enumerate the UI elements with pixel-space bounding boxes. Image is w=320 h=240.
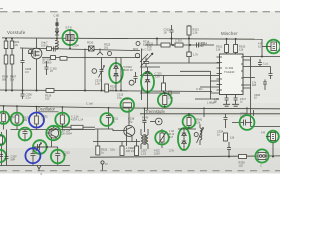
svg-text:C304: C304 [73, 44, 80, 48]
capacitor right of IC lower [263, 80, 267, 91]
junction dot G11 stem [188, 113, 190, 115]
resistor horizontal osz-out [62, 124, 71, 127]
wire trennstufe mid y141.5 [93, 141, 140, 143]
junction dot ground B5 [101, 90, 103, 92]
junction dot rail 2 [11, 38, 13, 40]
junction dot ground B6 [115, 90, 117, 92]
wire x121 vertical [120, 58, 122, 91]
svg-text:8,2k: 8,2k [143, 42, 149, 46]
svg-text:2,2n: 2,2n [26, 95, 32, 99]
resistor R307 [10, 55, 14, 64]
svg-text:DR 900: DR 900 [43, 60, 52, 64]
svg-text:Mischer: Mischer [221, 31, 238, 36]
varactor diode pair [145, 67, 149, 110]
underline Oszillator [38, 111, 59, 113]
coil L302 [55, 39, 58, 51]
wire connector down [272, 143, 274, 157]
junction dot x157 [156, 38, 158, 40]
svg-text:C: C [260, 164, 262, 168]
svg-text:1,7k: 1,7k [193, 53, 199, 57]
IC pin marks inner [220, 57, 244, 91]
test point circle 2 [108, 52, 112, 56]
resistor R325 [105, 84, 109, 92]
svg-text:100 V: 100 V [41, 43, 48, 47]
capacitor on y45 [197, 43, 199, 48]
junction dot rail 6 [189, 44, 191, 46]
svg-text:Trennstufe: Trennstufe [145, 109, 166, 114]
capacitor above rail E [227, 142, 231, 157]
svg-text:12k: 12k [216, 47, 221, 51]
junction dot divider x144.5 [144, 108, 146, 110]
svg-text:1,15: 1,15 [141, 151, 147, 155]
green circle marker resistor R318 [158, 93, 172, 107]
green ellipse marker varactors [141, 72, 154, 92]
svg-text:1k8: 1k8 [252, 84, 257, 87]
svg-text:10µ: 10µ [128, 119, 133, 123]
diode pair trenn [182, 129, 186, 150]
capacitor C312 [170, 25, 174, 45]
resistor R320 above IC [226, 39, 228, 45]
IC U301 TCA440 [220, 54, 244, 95]
green circle marker C326 [240, 115, 255, 130]
resistor R303 [11, 39, 13, 42]
ground below IC cap2 [232, 104, 239, 106]
svg-text:BCD 10: BCD 10 [124, 68, 134, 72]
green circle marker osz R2 [11, 113, 24, 126]
junction rail E 2 [272, 156, 274, 158]
capacitor left edge [0, 155, 3, 157]
junction dot rail 5 [172, 44, 174, 46]
wire oszillator mid rail [11, 129, 96, 131]
wire x85 vertical [84, 49, 86, 91]
junction dot 262 [261, 56, 263, 58]
capacitor below IC 2 [234, 95, 238, 105]
svg-text:120: 120 [239, 163, 244, 167]
IC pin stubs left [217, 57, 220, 90]
svg-text:3,1k: 3,1k [110, 148, 116, 152]
capacitor C green circled mid [106, 108, 111, 129]
resistor column trenn 1 [97, 130, 99, 147]
tick marks on divider [204, 107, 254, 117]
svg-text:510: 510 [45, 96, 50, 100]
wire mischer y45 [145, 44, 214, 46]
junction dot rail C312 [171, 38, 173, 40]
resistor R321 above IC [235, 39, 237, 45]
capacitor C326 green [232, 120, 252, 126]
wire y147 oszillator [33, 146, 58, 148]
green circle marker horizontal resistor top [121, 98, 135, 112]
tuning gang variable capacitor [140, 53, 153, 67]
resistor 12k trenn [224, 133, 228, 141]
junction dot rail 7 [226, 38, 228, 40]
wire IC pin stubs left lower [140, 76, 219, 100]
test point circle [29, 50, 33, 54]
svg-text:C 311: C 311 [196, 87, 203, 91]
junction dot divider x3.5 [3, 105, 5, 107]
test point circle coil [194, 133, 198, 137]
wire divider rail lower [140, 113, 280, 115]
capacitor right of IC upper [258, 59, 262, 67]
resistor R319 [46, 89, 54, 93]
svg-text:5 P 8: 5 P 8 [66, 26, 73, 30]
resistor column trenn 2 [121, 142, 123, 147]
svg-text:R310: R310 [87, 41, 94, 45]
resistor box x60 [60, 57, 67, 61]
capacitor C307 [5, 130, 9, 166]
green circle marker ferrite [63, 30, 78, 45]
resistor in circle [188, 114, 190, 118]
resistor R313 [188, 25, 190, 26]
svg-text:C 1n8: C 1n8 [86, 103, 93, 106]
oszillator resistor column 3 [36, 107, 38, 117]
junction dot rail R313 [188, 38, 190, 40]
svg-text:517: 517 [110, 87, 115, 91]
jack connector [258, 153, 266, 160]
wire supply rail top [2, 38, 262, 39]
svg-text:C µ1: C µ1 [263, 63, 269, 66]
svg-text:56k: 56k [2, 77, 7, 81]
green circle marker cap mid [100, 113, 113, 126]
coil trimmer L [197, 124, 204, 145]
green ellipse marker diodes [109, 63, 123, 83]
svg-text:Vorstufe: Vorstufe [7, 30, 26, 35]
test point circle 3 [92, 69, 97, 74]
svg-text:Oszillator: Oszillator [38, 107, 56, 112]
transistor Q301 MOSFET BF900 [31, 48, 42, 59]
resistor R310 box [89, 46, 95, 51]
IC pin stubs right [243, 60, 271, 88]
green circle marker left edge 2 [0, 150, 6, 162]
svg-text:4 R: 4 R [261, 131, 265, 135]
svg-text:1,5n: 1,5n [95, 81, 101, 85]
svg-text:561: 561 [142, 118, 147, 122]
svg-text:R327: R327 [124, 97, 131, 101]
test point circle 4 [129, 80, 134, 85]
wire mid horizontal left [20, 48, 140, 51]
vertical stub x157 [156, 39, 158, 46]
green circle marker connector right [267, 131, 279, 143]
capacitor C305 [21, 91, 25, 100]
diode stack varactor top [55, 18, 59, 39]
junction dot ground 2 [120, 90, 122, 92]
vertical corner x270.5 [269, 67, 273, 80]
wire y129 trenn [178, 128, 196, 130]
junction dot divider x17 [16, 105, 18, 107]
junction dot above R318 [164, 92, 166, 94]
svg-text:M03: M03 [133, 47, 139, 51]
oszillator resistor column 4 [61, 107, 63, 115]
test point circle x137.5 [135, 53, 139, 57]
wire y67 left of varactor [140, 66, 160, 68]
resistor R317 [163, 76, 165, 84]
wire divider rail upper [0, 106, 280, 109]
capacitor below IC 1 [225, 95, 229, 105]
resistor R312 horizontal [161, 43, 170, 47]
wire right vertical from IC [243, 57, 280, 127]
wire to TP [150, 121, 155, 123]
ferrite bead component [69, 30, 71, 49]
ground below IC cap1 [223, 104, 230, 106]
small circle TP trennstufe [155, 118, 162, 125]
junction dot rail 4 [69, 48, 71, 50]
blue circle marker cap [25, 148, 40, 163]
svg-text:2,7k: 2,7k [169, 149, 175, 153]
junction rail E 1 [228, 156, 230, 158]
svg-text:C 85: C 85 [54, 14, 60, 18]
svg-text:2,2k: 2,2k [193, 30, 199, 34]
svg-text:3,3n: 3,3n [155, 74, 161, 78]
svg-text:41TR 1,14: 41TR 1,14 [71, 117, 84, 121]
junction dot ground 1 [22, 90, 24, 92]
wire signal line y57.5 [42, 57, 140, 59]
green circle marker trimmer pot [155, 131, 169, 145]
capacitor green marked right [55, 147, 60, 166]
blue circle marker osz R3 [29, 113, 44, 128]
resistor R306 [4, 55, 8, 64]
svg-text:1,5n: 1,5n [168, 96, 174, 100]
junction dot divider x62.3 [61, 106, 63, 108]
green circle marker around Q302 [46, 126, 60, 140]
box on y57.5 [51, 56, 56, 60]
capacitor osz mid [23, 130, 28, 142]
capacitor C303 [21, 49, 25, 91]
capacitor small trenn [224, 114, 228, 128]
green circle marker trimmer [33, 140, 47, 154]
svg-text:56P: 56P [11, 157, 16, 161]
svg-text:3,3: 3,3 [25, 70, 29, 74]
output filter box [262, 46, 271, 48]
connector box right [266, 136, 271, 138]
wire rail drop right [243, 39, 280, 57]
transistor Q303 trennstufe [124, 126, 135, 137]
connector tick mid bottom [101, 161, 104, 164]
capacitor blue marked [31, 147, 36, 166]
svg-text:51k: 51k [10, 77, 15, 81]
svg-text:12k: 12k [230, 136, 235, 140]
svg-text:247 21: 247 21 [126, 149, 134, 153]
trimmer capacitor C317 [99, 58, 105, 91]
green circle marker osz R4 [55, 113, 69, 127]
transistor Q302 oszillator [49, 128, 59, 138]
junction dot rail 8 [235, 38, 237, 40]
resistor on rail E [239, 155, 247, 159]
svg-text:10µ: 10µ [240, 114, 245, 118]
junction dot rail 3 [56, 38, 58, 40]
junction dot divider x36.5 [36, 106, 38, 108]
capacitor on y48.5 [54, 47, 56, 52]
junction y147 [46, 146, 48, 148]
green ellipse marker osz R1 [0, 112, 9, 124]
left edge resistor [0, 136, 2, 144]
resistor column trenn 3 [136, 139, 138, 146]
junction dot rail [5, 38, 7, 40]
svg-text:C 310: C 310 [175, 39, 182, 43]
green circle marker jack [255, 149, 268, 162]
green circle marker output box [267, 40, 281, 54]
svg-text:2,2k: 2,2k [13, 43, 19, 47]
capacitor 1,5n [166, 91, 176, 96]
svg-text:2N 3904: 2N 3904 [62, 131, 72, 135]
green circle marker resistor R upper [183, 115, 196, 128]
trennstufe cap left [143, 108, 147, 132]
wire mischer feed y63 [148, 62, 219, 64]
oszillator resistor column 1 [3, 106, 5, 114]
junction dot ground B2 [11, 90, 13, 92]
wire bottom rail right [90, 156, 280, 157]
diode pair D301 [114, 58, 118, 91]
resistor under y45 [188, 45, 190, 52]
junction dot ground B4 [84, 90, 86, 92]
junction dot ground B3 [36, 90, 38, 92]
green circle marker left edge 1 [0, 135, 5, 145]
green circle marker osz cap [19, 128, 32, 141]
svg-text:TCA440: TCA440 [224, 70, 235, 74]
resistor R302 [5, 39, 7, 42]
capacitor x135 [134, 72, 138, 83]
wire y129 base [95, 129, 113, 131]
svg-text:2k2: 2k2 [104, 45, 109, 49]
wire x141.5 vertical mischer left [141, 49, 143, 101]
wire bottom rail left [0, 166, 70, 172]
junction dot divider x108.5 [108, 107, 110, 109]
test point circle x138 top [136, 42, 140, 46]
svg-text:10µ: 10µ [117, 95, 122, 99]
svg-text:12k: 12k [239, 47, 244, 51]
wire upper ground rail [0, 90, 212, 92]
capacitor C310 horizontal [175, 43, 183, 47]
wire y93 [140, 92, 180, 94]
bead on column x57 [55, 22, 58, 26]
green ellipse marker diode pair trenn [178, 128, 190, 150]
trimmer potentiometer green [161, 129, 163, 133]
horizontal resistor in circle [123, 103, 132, 107]
svg-text:4n7: 4n7 [169, 136, 174, 139]
left edge components column [1, 132, 3, 166]
capacitor C306 [45, 61, 49, 75]
svg-text:110V: 110V [154, 151, 160, 155]
junction dot ground B1 [5, 90, 7, 92]
coupling box on y48.5 [47, 47, 52, 51]
oszillator resistor column 2 [16, 106, 18, 115]
trimmer capacitor osz [33, 143, 48, 152]
transistor small symbol [97, 49, 103, 56]
wire mischer y71 [180, 71, 211, 99]
resistor R318 [164, 93, 166, 96]
green circle marker cap2 [51, 150, 65, 164]
transformer T301 [141, 129, 148, 149]
svg-text:4k7: 4k7 [9, 119, 14, 122]
svg-text:10k: 10k [196, 120, 201, 124]
